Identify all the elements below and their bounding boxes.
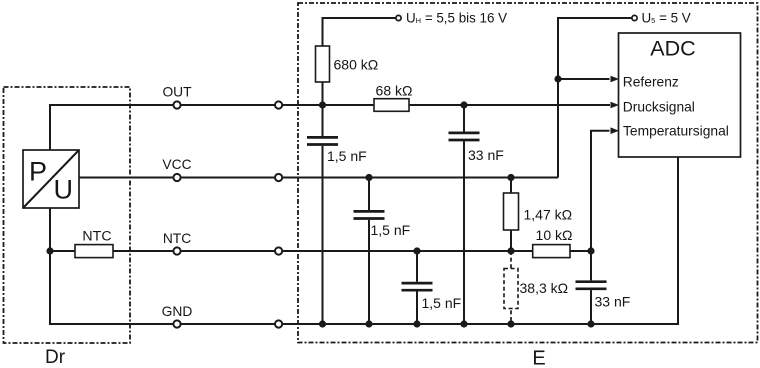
svg-text:GND: GND	[162, 304, 193, 319]
node NTC / R3 / 10k junction	[507, 247, 514, 254]
sensor element P/U	[23, 150, 79, 208]
label U5 = 5 V	[642, 11, 691, 26]
node GND C5	[587, 320, 594, 327]
svg-text:1,47 kΩ: 1,47 kΩ	[524, 207, 573, 223]
label Dr	[45, 347, 66, 368]
wire GND from sensor down and to pin	[50, 208, 174, 324]
label R4 10 kOhm	[536, 227, 573, 243]
svg-text:UH = 5,5 bis 16 V: UH = 5,5 bis 16 V	[406, 11, 507, 26]
label C5 33 nF	[595, 294, 631, 310]
ECU boundary E	[298, 3, 758, 343]
svg-text:38,3 kΩ: 38,3 kΩ	[520, 280, 569, 296]
svg-text:P: P	[29, 157, 47, 187]
terminal GND pin sensor side	[173, 320, 180, 327]
wire VCC rail in ECU	[282, 177, 558, 179]
node GND C4	[413, 320, 420, 327]
wire OUT node through C1 to GND	[322, 105, 324, 324]
node divider / temperatursignal junction	[587, 247, 594, 254]
svg-text:10 kΩ: 10 kΩ	[536, 227, 573, 243]
wire OUT between connector pins	[180, 104, 275, 106]
resistor 10 kOhm	[533, 245, 570, 258]
svg-text:U5 = 5 V: U5 = 5 V	[642, 11, 691, 26]
svg-text:NTC: NTC	[163, 231, 191, 246]
svg-text:NTC: NTC	[82, 229, 111, 245]
node GND C3	[365, 320, 372, 327]
resistor NTC	[75, 245, 113, 258]
node GND C1	[319, 320, 326, 327]
label NTC pin	[163, 231, 191, 246]
wire temperatursignal from NTC divider to ADC	[591, 131, 610, 251]
wire VCC node through R3 to NTC node	[510, 178, 512, 252]
svg-text:33 nF: 33 nF	[468, 147, 504, 163]
wire NTC between connector pins	[180, 250, 275, 252]
wire VCC between connector pins	[180, 177, 275, 179]
arrow into ADC referenz	[611, 76, 620, 83]
label C1 1,5 nF	[327, 148, 367, 164]
node GND R5	[507, 320, 514, 327]
node VCC / R3 junction	[507, 174, 514, 181]
node OUT / 680k junction	[319, 101, 326, 108]
wire divider node through C5 to GND	[590, 251, 592, 324]
capacitor C1 1,5 nF	[307, 137, 338, 144]
terminal supply U5	[632, 15, 637, 20]
svg-text:1,5 nF: 1,5 nF	[371, 222, 411, 238]
terminal supply UH	[396, 15, 401, 20]
terminal OUT pin sensor side	[173, 101, 180, 108]
svg-text:U: U	[54, 175, 74, 205]
node sensor GND/NTC junction	[46, 247, 53, 254]
label 680 kOhm	[334, 57, 379, 73]
label UH = 5,5 bis 16 V	[406, 11, 507, 26]
resistor 38,3 kOhm (optional, dashed)	[504, 269, 518, 309]
wire VCC node through C3 to GND	[368, 178, 370, 325]
svg-text:E: E	[532, 347, 545, 368]
resistor 1,47 kOhm	[504, 193, 519, 230]
capacitor C2 33 nF	[449, 133, 480, 140]
wire referenz from U5 node to ADC	[558, 78, 610, 80]
svg-text:Drucksignal: Drucksignal	[623, 99, 695, 114]
label OUT	[162, 85, 192, 100]
wire GND between connector pins	[180, 323, 275, 325]
arrow into ADC drucksignal	[611, 102, 620, 109]
svg-text:ADC: ADC	[650, 37, 695, 61]
svg-text:Referenz: Referenz	[623, 74, 679, 89]
capacitor C4 1,5 nF	[402, 283, 433, 290]
svg-text:680 kΩ: 680 kΩ	[334, 57, 379, 73]
resistor 68 kOhm	[374, 99, 409, 112]
node NTC / C4 junction	[413, 247, 420, 254]
capacitor C5 33 nF	[576, 282, 607, 289]
label R3 1,47 kOhm	[524, 207, 573, 223]
wire supply U5 down to VCC rail	[558, 18, 632, 178]
arrow into ADC temperatursignal	[611, 127, 620, 134]
wire node after 68k through C2 to GND	[463, 105, 465, 324]
terminal GND pin ECU side	[275, 320, 282, 327]
sensor module boundary Dr	[4, 87, 131, 343]
label E	[532, 347, 545, 368]
label R5 38,3 kOhm	[520, 280, 569, 296]
label NTC resistor	[82, 229, 111, 245]
terminal VCC pin ECU side	[275, 174, 282, 181]
terminal VCC pin sensor side	[173, 174, 180, 181]
wire GND rail in ECU up to ADC	[282, 157, 678, 324]
wire OUT / Drucksignal into ECU	[282, 104, 610, 106]
svg-text:Dr: Dr	[45, 347, 66, 368]
wire NTC resistor to pin	[113, 250, 174, 252]
svg-text:OUT: OUT	[162, 85, 192, 100]
node OUT / 33nF junction	[460, 101, 467, 108]
wire dashed branch through R5 to GND	[510, 251, 512, 324]
wire NTC node through C4 to GND	[416, 251, 418, 324]
svg-text:Temperatursignal: Temperatursignal	[623, 124, 729, 139]
label C3 1,5 nF	[371, 222, 411, 238]
svg-text:1,5 nF: 1,5 nF	[422, 295, 462, 311]
terminal NTC pin sensor side	[173, 247, 180, 254]
terminal OUT pin ECU side	[275, 101, 282, 108]
node GND C2	[460, 320, 467, 327]
label GND	[162, 304, 193, 319]
terminal NTC pin ECU side	[275, 247, 282, 254]
resistor 680 kOhm	[316, 46, 330, 82]
wire NTC node to NTC resistor	[50, 250, 75, 252]
label VCC	[162, 157, 191, 172]
node U5 / referenz junction	[554, 75, 561, 82]
svg-text:1,5 nF: 1,5 nF	[327, 148, 367, 164]
label C2 33 nF	[468, 147, 504, 163]
label 68 kOhm	[376, 83, 413, 99]
op-amp/ADC block U2 ADC	[619, 33, 741, 157]
wire OUT from sensor P/U to pin	[50, 105, 174, 150]
svg-text:VCC: VCC	[162, 157, 191, 172]
wire VCC from sensor to pin	[79, 177, 174, 179]
svg-text:33 nF: 33 nF	[595, 294, 631, 310]
wire supply UH to 680k and OUT node	[323, 18, 396, 105]
svg-text:68 kΩ: 68 kΩ	[376, 83, 413, 99]
capacitor C3 1,5 nF	[354, 211, 385, 218]
wire NTC rail in ECU	[282, 250, 591, 252]
node VCC / C3 junction	[365, 174, 372, 181]
label C4 1,5 nF	[422, 295, 462, 311]
